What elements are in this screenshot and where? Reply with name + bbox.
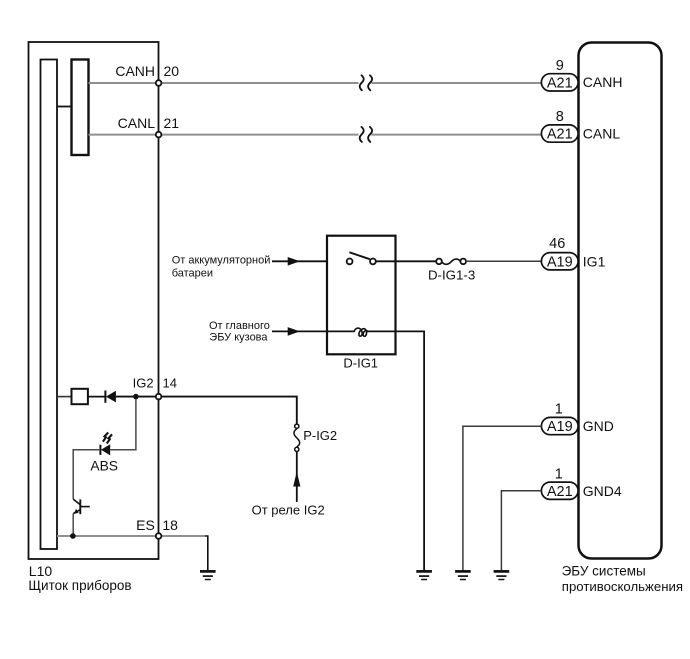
junction dot ES <box>70 533 76 539</box>
connector pill A21 pin 1 GND4 <box>541 466 622 500</box>
svg-text:GND4: GND4 <box>583 483 622 499</box>
svg-text:ЭБУ кузова: ЭБУ кузова <box>209 331 268 343</box>
wire GND4 to ground <box>501 491 541 571</box>
wire CANL <box>89 134 359 136</box>
ground (ES) <box>200 571 216 579</box>
wire IG2 internal <box>57 396 72 398</box>
relay switch contact left <box>347 259 353 265</box>
arrow battery <box>288 257 300 266</box>
svg-text:IG2: IG2 <box>133 375 154 390</box>
svg-text:21: 21 <box>164 115 180 131</box>
wire pin 14 to P-IG2 branch <box>162 397 297 424</box>
transistor Q (lamp driver) <box>73 499 90 514</box>
wire ES to ground <box>205 536 208 570</box>
svg-text:1: 1 <box>555 466 563 482</box>
svg-text:A19: A19 <box>547 254 573 270</box>
wire relay to fuse <box>376 260 437 262</box>
svg-text:8: 8 <box>556 109 564 125</box>
wire coil to ground <box>368 331 424 570</box>
svg-text:CANH: CANH <box>583 74 623 90</box>
svg-text:ABS: ABS <box>90 458 118 473</box>
svg-text:Щиток приборов: Щиток приборов <box>28 578 131 593</box>
svg-text:A19: A19 <box>547 419 573 435</box>
svg-text:GND: GND <box>583 418 614 434</box>
connector pill A21 pin 8 CANL <box>541 109 620 143</box>
connector pill A19 pin 1 GND <box>541 402 614 436</box>
relay switch contact right <box>370 259 376 265</box>
cluster connector bar <box>72 60 89 156</box>
ground (GND A19) <box>455 571 471 579</box>
svg-text:46: 46 <box>549 236 565 252</box>
svg-text:От реле IG2: От реле IG2 <box>252 502 325 517</box>
wire box to diode <box>88 396 105 398</box>
svg-text:От главного: От главного <box>209 320 270 332</box>
svg-text:IG1: IG1 <box>583 253 606 269</box>
arrow body ECU <box>288 327 300 336</box>
wire break CANH <box>360 75 372 90</box>
ground (GND4 A21) <box>494 571 510 579</box>
svg-text:D-IG1-3: D-IG1-3 <box>428 268 475 283</box>
connector pill A21 pin 9 CANH <box>541 58 622 92</box>
connector pill A19 pin 46 IG1 <box>541 236 605 270</box>
wire CANH <box>89 82 359 84</box>
resistor box (cluster) <box>72 389 88 404</box>
check connector P-IG2 <box>294 424 337 451</box>
wire diode to pin 14 <box>116 396 155 398</box>
svg-text:A21: A21 <box>547 484 573 500</box>
svg-text:батареи: батареи <box>172 267 213 279</box>
svg-text:ES: ES <box>136 517 155 533</box>
svg-text:14: 14 <box>163 375 177 390</box>
instrument cluster block L10 <box>29 42 159 559</box>
LED flash arrows <box>103 433 112 444</box>
fuse D-IG1-3 <box>428 259 475 283</box>
ECU block (skid control ECU) <box>579 43 662 559</box>
svg-text:9: 9 <box>556 58 564 74</box>
svg-text:18: 18 <box>162 517 178 533</box>
wire break CANL <box>360 127 372 142</box>
svg-text:CANH: CANH <box>115 63 155 79</box>
svg-text:ЭБУ системы: ЭБУ системы <box>562 563 646 578</box>
wire bus link <box>57 106 72 108</box>
LED ABS warning lamp <box>100 444 110 455</box>
wire junction to ABS lamp <box>110 399 136 449</box>
wire fuse to IG1 pill <box>466 260 542 262</box>
svg-text:От аккумуляторной: От аккумуляторной <box>172 254 271 266</box>
wire battery to relay <box>272 260 349 262</box>
svg-text:CANL: CANL <box>583 125 621 141</box>
arrow from IG2 relay <box>293 472 300 487</box>
diode D (cluster IG2) <box>105 391 116 403</box>
svg-text:A21: A21 <box>547 76 573 92</box>
wire ES <box>57 535 205 537</box>
svg-text:противоскольжения: противоскольжения <box>562 579 683 594</box>
relay switch arm <box>349 252 369 259</box>
wire LED to transistor <box>73 450 100 499</box>
relay coil <box>354 328 368 336</box>
wire GND to ground <box>463 426 542 570</box>
svg-text:CANL: CANL <box>118 115 156 131</box>
svg-text:D-IG1: D-IG1 <box>343 355 378 370</box>
wire transistor to ES <box>72 514 74 536</box>
ground (relay coil) <box>416 571 432 579</box>
cluster internal bus bar <box>41 60 58 550</box>
junction dot IG2 <box>133 394 139 400</box>
svg-text:L10: L10 <box>29 563 53 579</box>
wire body ECU to relay coil <box>272 330 354 332</box>
svg-text:20: 20 <box>164 63 180 79</box>
wire P-IG2 down <box>296 452 298 502</box>
relay D-IG1 box <box>327 236 396 355</box>
svg-text:1: 1 <box>555 402 563 418</box>
svg-text:P-IG2: P-IG2 <box>303 428 337 443</box>
svg-text:A21: A21 <box>547 127 573 143</box>
